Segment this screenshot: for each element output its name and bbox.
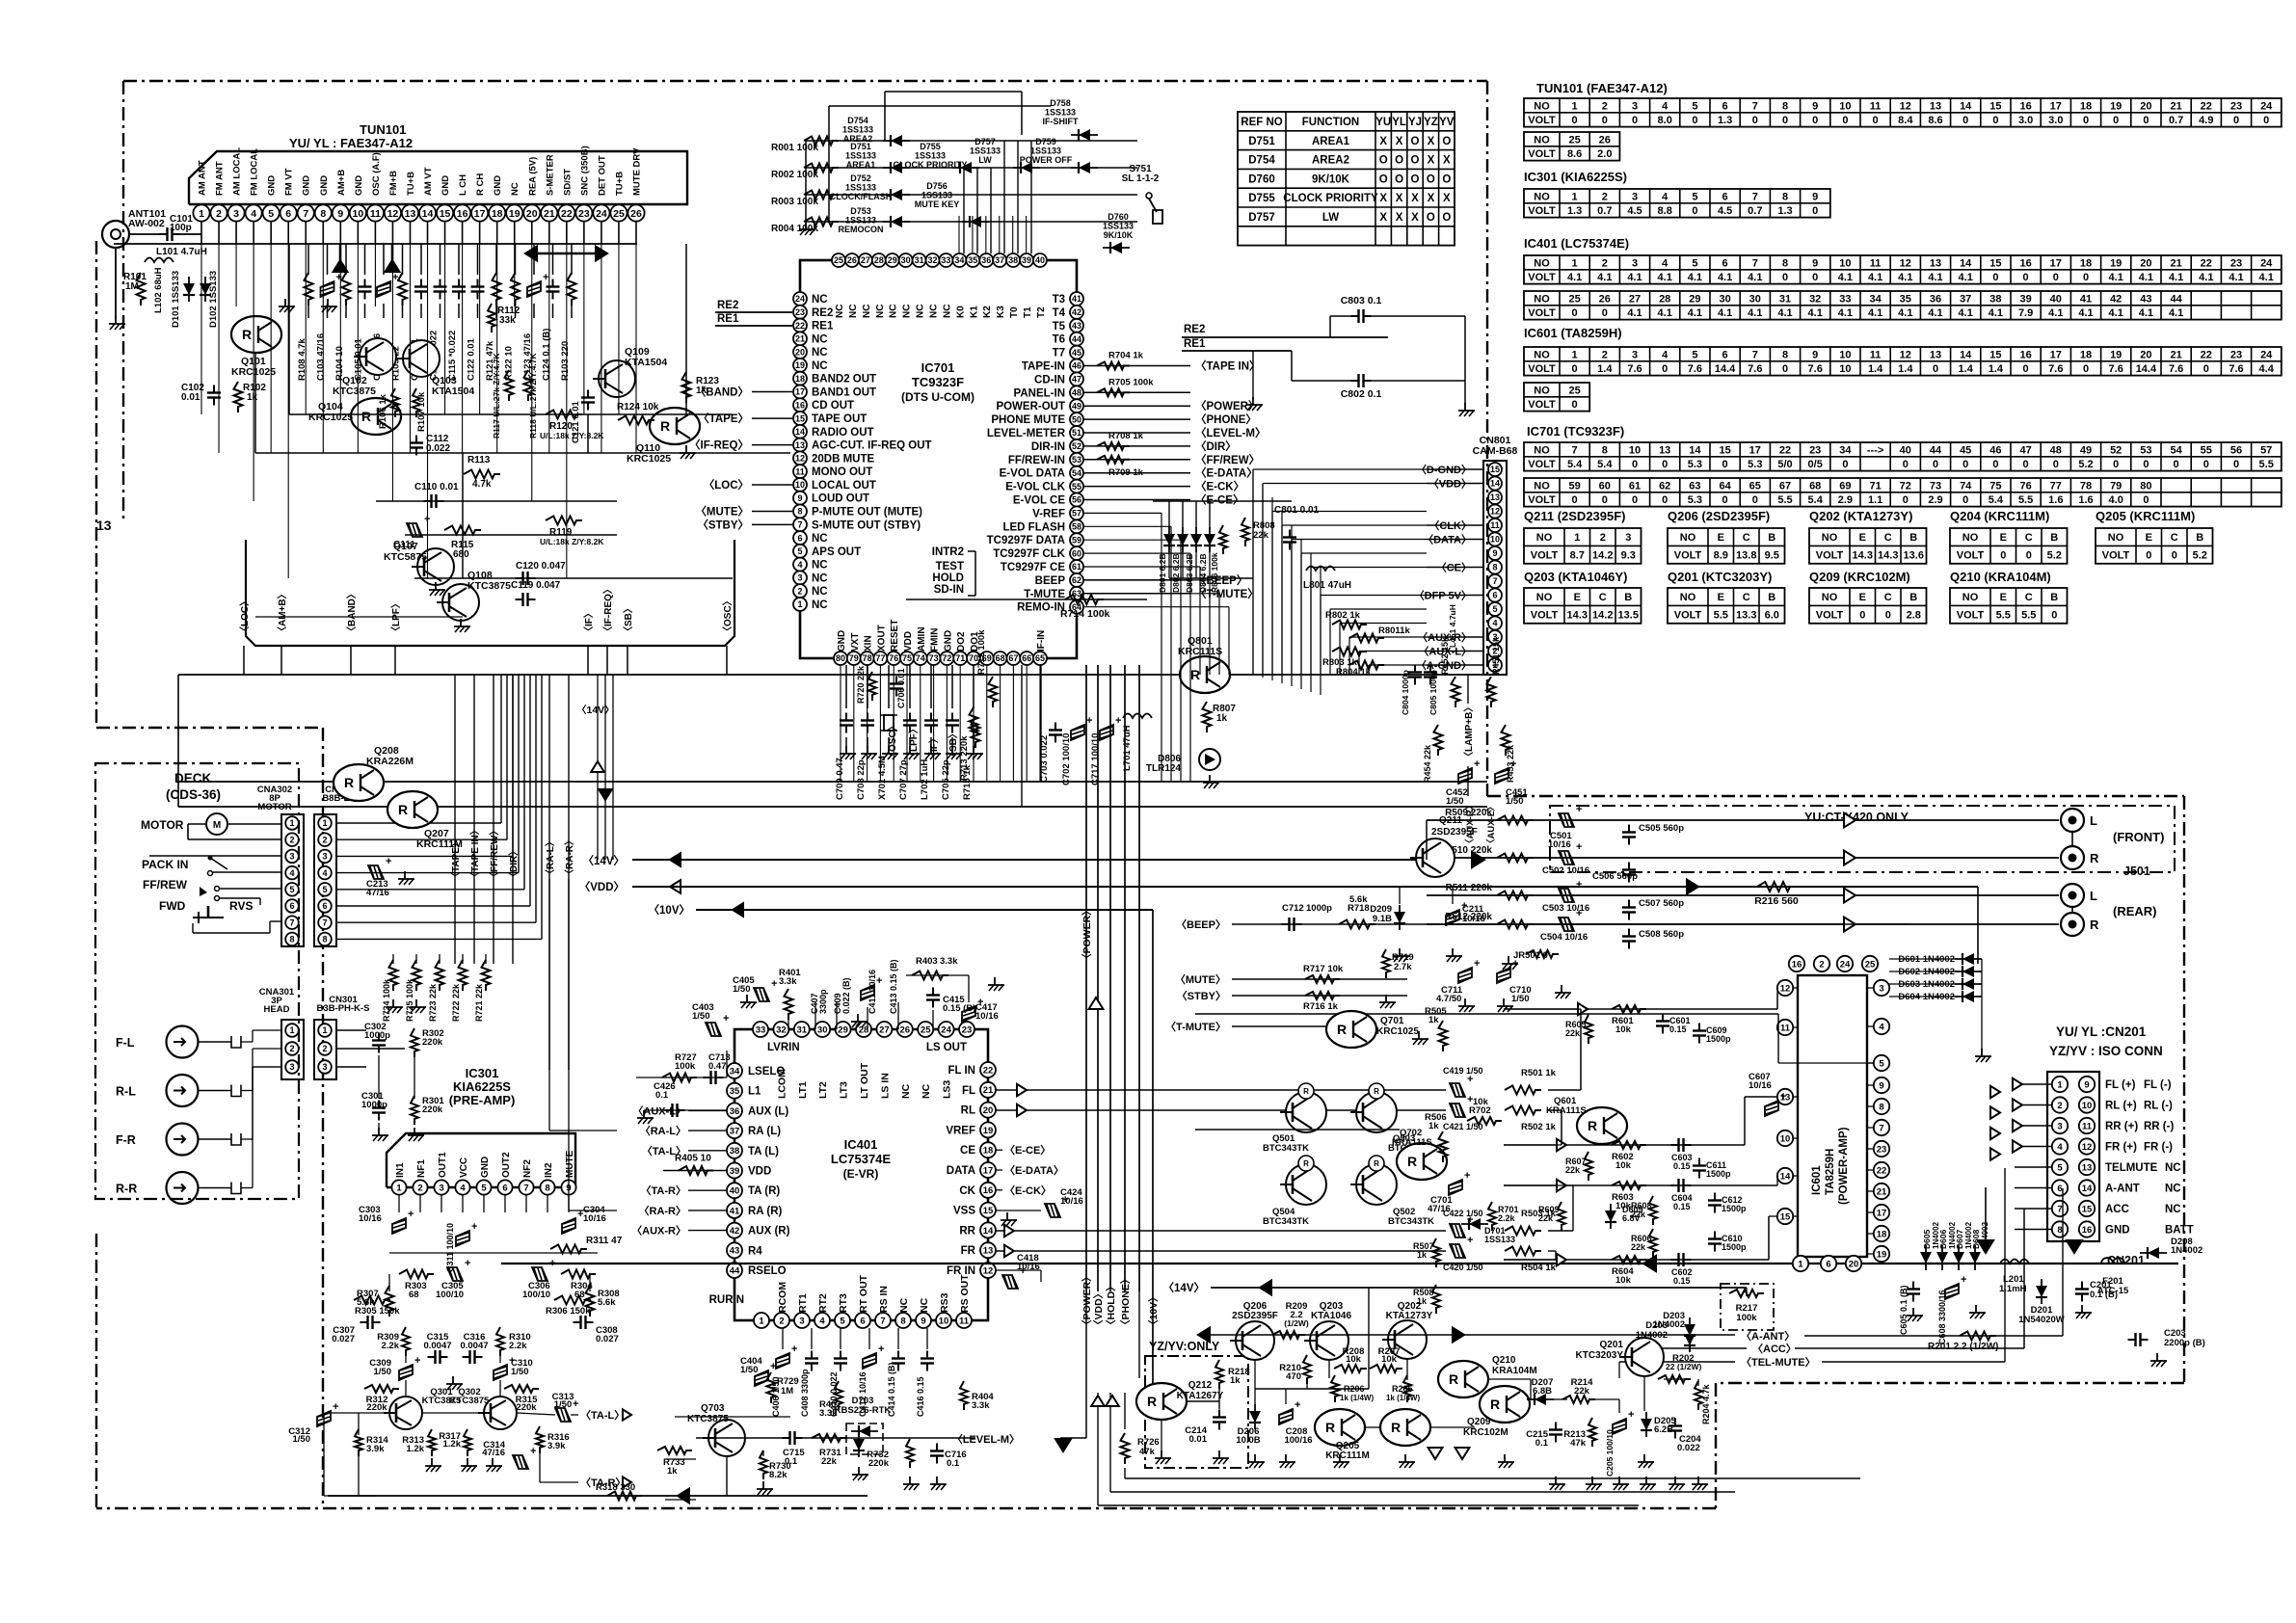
svg-text:1/50: 1/50	[374, 1367, 392, 1377]
IC701 right pin 44	[1070, 333, 1083, 346]
arrow right to speakers	[1472, 852, 1484, 867]
svg-text:FL (+): FL (+)	[2105, 1079, 2136, 1091]
svg-text:0.01: 0.01	[1189, 1434, 1208, 1445]
IC701 right pin 46	[1070, 359, 1083, 373]
IC701 bottom pin 72	[940, 652, 953, 665]
svg-text:6: 6	[322, 901, 327, 911]
svg-text:0: 0	[1782, 272, 1788, 283]
svg-text:7.6: 7.6	[1627, 363, 1642, 375]
svg-text:C121 0.01: C121 0.01	[571, 400, 581, 443]
svg-text:0: 0	[2143, 494, 2149, 506]
speaker lines FRONT REAR	[1427, 819, 2059, 821]
svg-text:R: R	[1190, 667, 1200, 682]
svg-text:39: 39	[730, 1166, 740, 1177]
IC701 right pin 50	[1070, 412, 1083, 426]
IC601 pin 16	[1789, 956, 1804, 971]
svg-text:E-VOL CE: E-VOL CE	[1013, 495, 1065, 507]
svg-text:VDD: VDD	[748, 1166, 771, 1178]
wire FL RL to power section	[1548, 1089, 1581, 1091]
svg-text:D755: D755	[1248, 193, 1275, 204]
svg-text:AUX (R): AUX (R)	[748, 1226, 790, 1237]
svg-text:C: C	[2025, 592, 2033, 603]
svg-text:(CDS-36): (CDS-36)	[166, 787, 221, 802]
svg-text:1SS133: 1SS133	[842, 125, 873, 135]
svg-text:C505 560p: C505 560p	[1639, 823, 1684, 834]
IC401 left pin 44	[727, 1263, 742, 1278]
svg-text:PACK IN: PACK IN	[142, 858, 188, 871]
svg-text:9.1B: 9.1B	[1373, 914, 1392, 924]
svg-text:+: +	[1780, 1091, 1786, 1103]
svg-text:NO: NO	[1534, 100, 1550, 112]
svg-text:4: 4	[1662, 257, 1669, 269]
svg-text:LW: LW	[1322, 212, 1339, 224]
svg-text:GND: GND	[319, 175, 330, 196]
CN201 pin 7/15	[2052, 1201, 2068, 1216]
svg-text:8.6: 8.6	[1928, 115, 1942, 126]
resistor R452 15k	[1452, 677, 1460, 707]
IC401 bottom pin 1	[754, 1313, 769, 1328]
svg-text:1: 1	[396, 1183, 402, 1193]
svg-text:5: 5	[1879, 1058, 1884, 1069]
svg-text:3: 3	[799, 1316, 804, 1326]
capacitor C305 100/10	[447, 1258, 470, 1281]
svg-text:8.6: 8.6	[1567, 148, 1582, 160]
svg-text:22: 22	[2201, 257, 2212, 269]
svg-text:NO: NO	[1962, 592, 1979, 603]
svg-text:1k: 1k	[1216, 713, 1228, 724]
capacitor C602 0.15	[1677, 1253, 1679, 1266]
jack F-L	[167, 1026, 199, 1058]
CNA302 pin 8	[285, 933, 299, 946]
svg-text:10k: 10k	[1473, 1097, 1489, 1107]
svg-text:〈IF-REQ〉: 〈IF-REQ〉	[689, 439, 749, 452]
svg-text:R306 150k: R306 150k	[546, 1306, 591, 1317]
resistor R106 1k	[391, 388, 399, 417]
svg-text:〈LAMP+B〉: 〈LAMP+B〉	[1462, 703, 1475, 761]
svg-text:0: 0	[2113, 115, 2119, 126]
svg-text:22k: 22k	[821, 1456, 838, 1467]
svg-text:14: 14	[422, 208, 434, 220]
grounds bottom right	[1555, 1477, 1557, 1484]
CN302 pin 7	[318, 916, 332, 929]
wire boundary bottom-left box	[96, 727, 323, 729]
svg-text:C413 0.15 (B): C413 0.15 (B)	[889, 959, 898, 1014]
svg-text:5: 5	[1692, 100, 1697, 112]
svg-text:2: 2	[289, 835, 294, 844]
CNA302 pin 5	[285, 883, 299, 896]
svg-text:7: 7	[303, 208, 308, 220]
svg-text:R403: R403	[916, 956, 938, 967]
svg-text:〈IF-REQ〉: 〈IF-REQ〉	[601, 584, 614, 636]
svg-text:12: 12	[1900, 257, 1911, 269]
svg-text:18: 18	[492, 208, 503, 220]
svg-text:NC: NC	[862, 305, 872, 318]
IC601 pin 14	[1777, 1168, 1793, 1184]
capacitor C610 1500p	[1708, 1237, 1722, 1239]
svg-text:D760: D760	[1108, 212, 1129, 222]
resistor R312 220k	[364, 1385, 399, 1393]
transistor Q110 KRC1025	[650, 408, 700, 444]
svg-text:7.6: 7.6	[2229, 363, 2243, 375]
svg-text:24: 24	[2260, 349, 2273, 360]
resistor R731 22k	[812, 1434, 846, 1442]
svg-text:44: 44	[2170, 293, 2182, 305]
svg-text:RE1: RE1	[812, 321, 834, 333]
svg-text:E: E	[2146, 532, 2152, 544]
svg-text:1.1: 1.1	[1868, 494, 1882, 506]
svg-text:GND: GND	[480, 1157, 491, 1178]
power amp input line C	[1504, 1184, 1777, 1186]
CN801 pin 13	[1488, 491, 1502, 504]
IC701 right pin 51	[1070, 426, 1083, 439]
capacitor C404 1/50	[755, 1370, 768, 1386]
resistor R808 22k	[1241, 518, 1249, 546]
svg-text:TA8259H: TA8259H	[1825, 1149, 1836, 1195]
svg-text:+: +	[471, 1221, 477, 1233]
svg-text:REF NO: REF NO	[1241, 117, 1283, 128]
svg-text:FM VT: FM VT	[284, 168, 295, 196]
wire tuner pin drops	[200, 222, 202, 244]
svg-text:NC: NC	[898, 1297, 910, 1313]
resistor R304 68	[561, 1270, 596, 1279]
svg-text:13.6: 13.6	[1904, 550, 1924, 562]
svg-text:52: 52	[1072, 441, 1081, 451]
capacitor C415 0.15	[926, 994, 940, 996]
svg-text:1500p: 1500p	[1706, 1034, 1731, 1044]
svg-text:11: 11	[1870, 257, 1882, 269]
svg-text:16: 16	[983, 1185, 994, 1196]
svg-text:12: 12	[2082, 1142, 2093, 1153]
svg-text:10/16: 10/16	[975, 1011, 999, 1022]
IC701 top pin 35	[966, 253, 979, 267]
svg-text:1: 1	[1798, 1259, 1803, 1269]
svg-text:5.5: 5.5	[2021, 610, 2036, 622]
IC601 pin 4	[1874, 1019, 1889, 1034]
svg-text:MUTE: MUTE	[565, 1150, 575, 1178]
svg-text:〈LEVEL-M〉: 〈LEVEL-M〉	[952, 1433, 1020, 1446]
CN801 pin 7	[1488, 574, 1502, 588]
svg-text:〈TA-L〉: 〈TA-L〉	[580, 1409, 625, 1422]
svg-text:4.1: 4.1	[2109, 307, 2123, 319]
svg-text:RESET: RESET	[890, 620, 900, 652]
svg-text:29: 29	[888, 255, 897, 265]
IC401 right pin 22	[980, 1062, 996, 1078]
svg-text:R CH: R CH	[475, 173, 486, 196]
svg-text:40: 40	[1035, 255, 1045, 265]
svg-text:0: 0	[2233, 459, 2239, 470]
svg-text:NC: NC	[812, 360, 828, 372]
svg-text:4.1: 4.1	[2199, 272, 2213, 283]
svg-text:24: 24	[2260, 257, 2273, 269]
capacitor C213 47/16	[368, 856, 391, 879]
svg-text:0.7: 0.7	[1597, 205, 1612, 217]
svg-text:79: 79	[2110, 480, 2122, 492]
svg-text:22: 22	[1877, 1165, 1887, 1176]
svg-text:23: 23	[2230, 349, 2242, 360]
svg-text:2.2k: 2.2k	[382, 1341, 400, 1351]
svg-text:0.022: 0.022	[1677, 1443, 1700, 1453]
capacitor C711 4.7/50	[1458, 968, 1472, 983]
svg-text:3: 3	[1632, 349, 1638, 360]
svg-text:5: 5	[1492, 604, 1497, 614]
svg-text:TUN101 (FAE347-A12): TUN101 (FAE347-A12)	[1536, 81, 1668, 95]
IC401 bottom pin 6	[855, 1313, 870, 1328]
svg-text:L CH: L CH	[458, 174, 468, 196]
svg-text:NC: NC	[2165, 1184, 2181, 1195]
svg-text:55: 55	[2201, 444, 2212, 456]
svg-text:OSC (A.F): OSC (A.F)	[371, 152, 382, 196]
svg-text:D753: D753	[850, 206, 871, 216]
svg-text:KTC3875: KTC3875	[687, 1414, 729, 1424]
svg-text:Q202 (KTA1273Y): Q202 (KTA1273Y)	[1809, 509, 1912, 523]
capacitor C708 22p	[867, 665, 868, 708]
svg-text:NC: NC	[812, 599, 828, 611]
svg-text:〈AM+B〉: 〈AM+B〉	[276, 589, 288, 636]
svg-text:5.5: 5.5	[1777, 494, 1792, 506]
IC401 top pin 27	[876, 1022, 892, 1037]
resistor R714 100k	[906, 599, 1147, 600]
capacitor C715 0.1	[788, 1431, 790, 1445]
svg-text:D757: D757	[1248, 212, 1275, 224]
svg-text:R: R	[1325, 1420, 1335, 1435]
svg-text:(PRE-AMP): (PRE-AMP)	[449, 1093, 516, 1107]
svg-text:R: R	[242, 327, 252, 342]
capacitor C804 1000p	[1408, 671, 1422, 673]
svg-text:〈LOC〉: 〈LOC〉	[238, 597, 251, 636]
svg-text:36: 36	[981, 255, 991, 265]
svg-text:5.5: 5.5	[2259, 459, 2274, 470]
svg-text:8.0: 8.0	[1658, 115, 1672, 126]
svg-text:X: X	[1396, 212, 1403, 224]
svg-text:〈DIR〉: 〈DIR〉	[1195, 439, 1237, 453]
svg-text:+: +	[336, 272, 342, 283]
tuner lower rail	[246, 540, 734, 646]
svg-text:1/50: 1/50	[293, 1434, 311, 1445]
capacitor C203 2200p	[2134, 1333, 2136, 1346]
svg-text:C712: C712	[1282, 903, 1304, 914]
svg-text:TELMUTE: TELMUTE	[2105, 1162, 2158, 1174]
svg-text:16: 16	[1792, 959, 1802, 970]
IC701 top pin 25	[832, 253, 845, 267]
svg-text:39: 39	[2019, 293, 2031, 305]
IC601 pin 10	[1777, 1131, 1793, 1146]
svg-text:VOLT: VOLT	[1528, 272, 1556, 283]
svg-text:2.9: 2.9	[1838, 494, 1853, 506]
svg-text:NC: NC	[919, 1297, 930, 1313]
svg-text:10/16: 10/16	[1060, 1196, 1083, 1207]
svg-text:19: 19	[509, 208, 521, 220]
svg-text:16: 16	[457, 208, 468, 220]
svg-text:10k: 10k	[1381, 1354, 1398, 1365]
svg-text:ACC: ACC	[2105, 1204, 2129, 1215]
svg-text:RR (+): RR (+)	[2105, 1121, 2138, 1132]
svg-text:R: R	[398, 802, 408, 817]
svg-text:C: C	[1743, 592, 1750, 603]
svg-text:+: +	[878, 1344, 884, 1355]
zener D209 9.1B	[1394, 912, 1405, 923]
svg-text:NO: NO	[2108, 532, 2124, 544]
resistor R317 1.2k	[464, 1429, 471, 1456]
IC601 pin 12	[1777, 980, 1793, 996]
svg-text:PHONE MUTE: PHONE MUTE	[991, 414, 1065, 426]
svg-text:CE: CE	[960, 1145, 975, 1157]
svg-text:17: 17	[2050, 257, 2062, 269]
svg-text:AMIN: AMIN	[917, 626, 927, 652]
svg-text:R: R	[1490, 1397, 1500, 1412]
svg-text:0: 0	[2026, 550, 2032, 562]
svg-text:+: +	[1467, 1235, 1473, 1246]
svg-text:1N4002: 1N4002	[1653, 1319, 1685, 1330]
capacitor C204 0.022	[1669, 1424, 1682, 1426]
IC701 bottom pin 74	[914, 652, 927, 665]
svg-text:R113: R113	[467, 455, 491, 466]
svg-text:3: 3	[2057, 1121, 2062, 1131]
IC401 right pin 21	[980, 1082, 996, 1098]
svg-text:5.5: 5.5	[1714, 610, 1728, 622]
svg-text:3.3k: 3.3k	[972, 1400, 990, 1411]
zener D609 6.8V	[1605, 1211, 1616, 1222]
IC701 left pin 5	[793, 545, 807, 558]
svg-text:1.3: 1.3	[1777, 205, 1792, 217]
capacitor C452 1/50	[1458, 768, 1472, 784]
resistor R003 100k	[804, 191, 839, 200]
wire CN801 bus left	[1253, 468, 1427, 470]
wire boundary power section	[1487, 795, 2184, 797]
resistor R316 3.9k	[536, 1426, 544, 1453]
IC401 left pin 34	[727, 1063, 742, 1078]
svg-text:KTA1273Y: KTA1273Y	[1386, 1311, 1433, 1321]
svg-text:19: 19	[2110, 100, 2122, 112]
svg-text:HEAD: HEAD	[264, 1004, 290, 1015]
svg-text:76: 76	[889, 653, 898, 663]
svg-text:O: O	[1379, 173, 1388, 185]
svg-text:22: 22	[561, 208, 573, 220]
resistor R112 33k	[488, 304, 495, 333]
svg-text:0: 0	[1572, 494, 1578, 506]
svg-text:8: 8	[1782, 191, 1788, 202]
svg-text:0/5: 0/5	[1808, 459, 1823, 470]
IC701 right pin 52	[1070, 439, 1083, 453]
resistor R214 22k	[1562, 1396, 1595, 1403]
svg-text:4.1: 4.1	[1688, 307, 1702, 319]
capacitor C205 100/10	[1613, 1419, 1626, 1434]
diode D208 1N4002	[2148, 1247, 2159, 1259]
IC401 bottom pin 8	[895, 1313, 911, 1328]
svg-text:0: 0	[1885, 610, 1891, 622]
svg-text:R: R	[1407, 1154, 1417, 1169]
IC601 pin 24	[1837, 956, 1853, 971]
svg-text:9: 9	[337, 208, 343, 220]
IC U701 TC9323F outline	[800, 260, 1077, 658]
IC701 right pin 56	[1070, 493, 1083, 507]
jumper JR501 0	[1526, 950, 1559, 958]
svg-text:R: R	[1449, 1371, 1458, 1387]
diode 1SS133	[891, 216, 902, 227]
svg-text:5/0: 5/0	[1777, 459, 1792, 470]
IC701 left pin 16	[793, 398, 807, 412]
transistor Q502 BTC343TK	[1356, 1164, 1397, 1205]
capacitor C121 0.01	[581, 396, 595, 398]
svg-text:NO: NO	[1534, 293, 1550, 305]
svg-text:0: 0	[2023, 272, 2029, 283]
svg-text:YZ: YZ	[1424, 117, 1438, 128]
svg-text:ATC-15: ATC-15	[2097, 1286, 2129, 1296]
svg-text:37: 37	[1960, 293, 1971, 305]
svg-text:1.6: 1.6	[2078, 494, 2093, 506]
svg-text:R708 1k: R708 1k	[1108, 431, 1144, 441]
svg-text:100/10: 100/10	[436, 1290, 464, 1300]
svg-text:12: 12	[1900, 349, 1911, 360]
resistor R313 1.2k	[428, 1429, 436, 1456]
svg-text:14: 14	[1780, 1171, 1791, 1182]
svg-text:60: 60	[1072, 548, 1081, 558]
svg-text:〈STBY〉: 〈STBY〉	[697, 518, 749, 531]
svg-text:O: O	[1442, 212, 1451, 224]
svg-text:45: 45	[1960, 444, 1971, 456]
svg-text:C421 1/50: C421 1/50	[1443, 1122, 1483, 1131]
svg-text:220k: 220k	[516, 1402, 537, 1413]
svg-text:1: 1	[199, 208, 204, 220]
svg-text:D757: D757	[974, 137, 996, 146]
svg-text:1k: 1k	[1230, 1375, 1241, 1386]
svg-text:〈RA-R〉: 〈RA-R〉	[639, 1205, 687, 1217]
svg-text:D759: D759	[1035, 137, 1056, 146]
svg-text:11: 11	[1490, 520, 1500, 530]
svg-text:FM+B: FM+B	[388, 171, 399, 196]
svg-text:9: 9	[2084, 1079, 2089, 1090]
svg-text:77: 77	[875, 653, 885, 663]
svg-text:5: 5	[1692, 257, 1697, 269]
svg-text:+: +	[1295, 1399, 1300, 1411]
svg-text:KTC3203Y: KTC3203Y	[1576, 1350, 1624, 1361]
svg-text:7: 7	[1492, 576, 1497, 586]
svg-text:LT3: LT3	[839, 1081, 850, 1099]
svg-text:0.15: 0.15	[1673, 1202, 1691, 1211]
svg-text:R720 22k: R720 22k	[856, 665, 866, 704]
jack F-R	[167, 1124, 199, 1156]
svg-text:5.3: 5.3	[1748, 459, 1762, 470]
svg-text:D607: D607	[1955, 1229, 1964, 1249]
svg-text:L702 1uH: L702 1uH	[920, 759, 930, 800]
capacitor C123 47/16	[533, 244, 535, 275]
svg-text:3: 3	[1632, 191, 1638, 202]
svg-text:KRA226M: KRA226M	[366, 756, 414, 767]
svg-text:TAPE-IN: TAPE-IN	[1022, 361, 1065, 373]
IC701 right pin 42	[1070, 306, 1083, 319]
svg-text:RURIN: RURIN	[709, 1294, 744, 1306]
svg-text:36: 36	[730, 1106, 740, 1117]
IC401 bottom pin 10	[936, 1313, 951, 1328]
svg-text:YU:CT-X420 ONLY: YU:CT-X420 ONLY	[1804, 811, 1909, 824]
resistor R213 47k	[1589, 1418, 1596, 1447]
resistor R713 220k	[972, 717, 980, 748]
svg-text:7.9: 7.9	[2018, 307, 2033, 319]
svg-text:3.3k: 3.3k	[940, 956, 958, 967]
svg-text:T2: T2	[1036, 306, 1047, 318]
svg-text:15: 15	[795, 413, 805, 423]
svg-text:X: X	[1428, 136, 1435, 147]
svg-text:0: 0	[1632, 115, 1638, 126]
svg-text:C420 1/50: C420 1/50	[1443, 1263, 1483, 1272]
svg-text:KRC1025: KRC1025	[1376, 1026, 1419, 1037]
svg-text:5: 5	[1692, 349, 1697, 360]
svg-text:CAM-B68: CAM-B68	[1473, 445, 1518, 457]
svg-text:10/16: 10/16	[583, 1213, 606, 1224]
zener D206 10.0B	[1249, 1411, 1261, 1423]
svg-text:R117 U/L:27k Z/Y:4.7K: R117 U/L:27k Z/Y:4.7K	[492, 352, 501, 439]
svg-text:38: 38	[730, 1146, 740, 1157]
svg-text:59: 59	[1568, 480, 1580, 492]
